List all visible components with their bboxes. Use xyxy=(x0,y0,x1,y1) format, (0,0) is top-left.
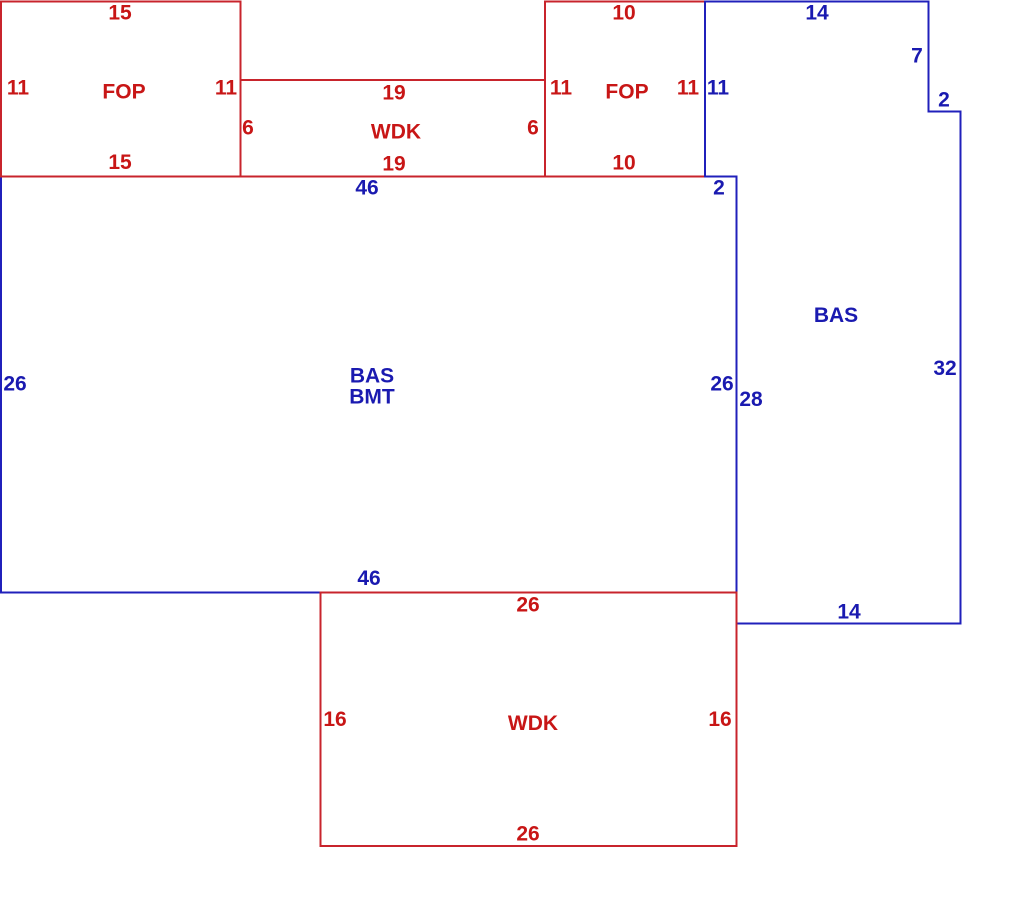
svg-text:32: 32 xyxy=(933,357,956,380)
svg-text:16: 16 xyxy=(708,708,731,731)
svg-text:FOP: FOP xyxy=(605,81,648,104)
area BAS BMT outline xyxy=(1,177,737,593)
svg-text:26: 26 xyxy=(516,823,539,846)
svg-text:7: 7 xyxy=(911,45,923,68)
svg-text:11: 11 xyxy=(550,77,573,100)
svg-text:26: 26 xyxy=(3,373,26,396)
svg-text:15: 15 xyxy=(108,2,132,25)
svg-text:46: 46 xyxy=(355,177,378,200)
svg-text:11: 11 xyxy=(7,77,30,100)
svg-text:19: 19 xyxy=(382,153,405,176)
svg-text:46: 46 xyxy=(357,567,380,590)
svg-text:26: 26 xyxy=(516,594,539,617)
svg-text:11: 11 xyxy=(677,77,700,100)
svg-text:15: 15 xyxy=(108,151,132,174)
svg-text:11: 11 xyxy=(707,77,730,100)
svg-text:6: 6 xyxy=(242,117,254,140)
area FOP2 outline xyxy=(545,2,705,177)
area BAS outline xyxy=(705,2,961,624)
svg-text:10: 10 xyxy=(612,152,635,175)
svg-text:BMT: BMT xyxy=(349,386,395,409)
svg-text:11: 11 xyxy=(215,77,238,100)
area FOP1 outline xyxy=(1,2,241,177)
svg-text:WDK: WDK xyxy=(508,712,558,735)
svg-text:26: 26 xyxy=(710,373,733,396)
area WDK1 outline xyxy=(241,80,546,177)
svg-text:10: 10 xyxy=(612,2,635,25)
svg-text:14: 14 xyxy=(837,601,861,624)
svg-text:6: 6 xyxy=(527,117,539,140)
svg-text:14: 14 xyxy=(805,2,829,25)
svg-text:BAS: BAS xyxy=(350,365,394,388)
svg-text:BAS: BAS xyxy=(814,304,858,327)
svg-text:19: 19 xyxy=(382,82,405,105)
svg-text:WDK: WDK xyxy=(371,121,421,144)
svg-text:16: 16 xyxy=(323,708,346,731)
svg-text:2: 2 xyxy=(938,89,950,112)
area WDK2 outline xyxy=(321,593,737,847)
svg-text:28: 28 xyxy=(739,388,763,411)
svg-text:FOP: FOP xyxy=(102,81,145,104)
svg-text:2: 2 xyxy=(713,177,725,200)
